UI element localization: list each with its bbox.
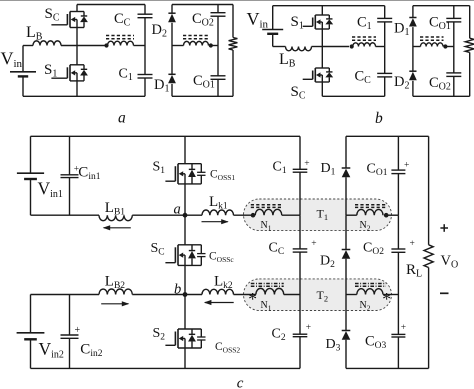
arrow under LB2 (right) xyxy=(101,301,129,306)
arrow under LB1 (left) xyxy=(103,225,131,230)
label D2 (fig c) xyxy=(320,254,335,271)
core lines primary (fig b) xyxy=(352,37,376,40)
label N1 (T2) xyxy=(261,300,272,313)
plus mark CO3 xyxy=(401,323,406,333)
label LB (fig a) xyxy=(26,24,43,43)
label T2 xyxy=(317,288,329,304)
capacitor CC (fig b) xyxy=(377,73,392,77)
resistor load (fig b) xyxy=(465,38,474,52)
wire RL to bottom xyxy=(428,268,430,369)
battery Vin1 xyxy=(17,136,44,215)
wire T1 node to D2 xyxy=(345,215,347,249)
node dot T1 N2 xyxy=(384,213,389,218)
wire D1 to bottom (fig a) xyxy=(171,84,173,96)
svg-text:b: b xyxy=(375,110,383,127)
svg-text:+: + xyxy=(401,323,406,333)
wire top to CO1 (fig b) xyxy=(453,6,455,19)
wire CC to T2 tap xyxy=(299,252,301,294)
label C2 (fig c) xyxy=(272,326,286,343)
capacitor CO2 (fig a) xyxy=(211,13,226,17)
label Lk1 xyxy=(209,194,228,212)
winding N2 of T2 xyxy=(346,289,383,295)
diode D1 (fig c) xyxy=(342,168,351,177)
wire C1 to mid (fig b) xyxy=(384,22,386,74)
wire D3 to bottom xyxy=(345,340,347,369)
label SC (fig c) xyxy=(151,241,165,258)
figure a: top border artifact line xyxy=(0,0,474,2)
wire bottom (fig a left) xyxy=(23,95,145,97)
wire battery to LB (fig b) xyxy=(273,46,286,48)
core lines secondary (fig a) xyxy=(183,36,209,39)
inductor Lk2 xyxy=(202,289,234,294)
wire node a to Lk1 xyxy=(185,214,202,216)
label CO3 (fig c) xyxy=(365,334,387,352)
node a xyxy=(183,213,188,218)
core lines secondary (fig b) xyxy=(420,37,444,40)
label S1 (fig b) xyxy=(291,14,304,32)
wire S2 to bottom (fig c) xyxy=(184,348,186,368)
label S1 (fig c) xyxy=(153,160,166,177)
wire winding to C rail (fig a) xyxy=(134,45,146,47)
battery Vin (fig b) xyxy=(262,6,283,47)
capacitor C1 (fig b) xyxy=(377,18,392,22)
label CO1 (fig a) xyxy=(193,73,215,91)
wire bottom (fig b left) xyxy=(322,95,384,97)
wire winding to CO rail (fig b) xyxy=(445,46,453,48)
wire D2 to T2 node xyxy=(345,259,347,295)
wire D1 to mid (fig b) xyxy=(412,27,414,46)
plus mark C1 xyxy=(304,159,309,169)
svg-text:a: a xyxy=(118,109,126,126)
diode D3 (fig c) xyxy=(342,331,351,340)
winding N1 of T2 xyxy=(256,288,284,294)
resistor load (fig a) xyxy=(229,38,238,51)
capacitor C2 (fig c) xyxy=(293,334,308,337)
capacitor C1 (fig a) xyxy=(138,75,153,79)
label c (fig c) xyxy=(237,376,244,389)
transformer T1 outline xyxy=(244,199,392,231)
wire top to CO1 (fig c) xyxy=(397,136,399,170)
arrow under Lk2 (left) xyxy=(204,300,234,305)
label b (node) xyxy=(174,281,181,297)
label a xyxy=(174,201,181,217)
wire Vin+ to LB (fig a) xyxy=(23,45,33,47)
label Cin1 with plus xyxy=(74,164,101,182)
capacitor Cin1 xyxy=(61,136,79,215)
wire LB2 to node b xyxy=(132,294,185,296)
transistor SC (fig a) xyxy=(51,12,88,28)
diode D1 (fig a) xyxy=(168,74,176,83)
label D2 (fig a) xyxy=(152,22,167,40)
wire CO1 to T1 node xyxy=(397,174,399,216)
label CC (fig a) xyxy=(114,11,131,29)
node dot secondary winding (fig b) xyxy=(443,44,447,48)
wire T2 N2 to CO rail xyxy=(383,294,398,296)
capacitor label COSS1 xyxy=(210,169,235,183)
wire S1 to node a xyxy=(184,184,186,215)
polarity mark T2 N1 xyxy=(248,289,257,309)
label LB2 xyxy=(105,274,126,292)
wire top to load (fig a) xyxy=(232,5,234,38)
wire N1 to C rail (fig c) xyxy=(282,214,300,216)
label CC (fig b) xyxy=(355,69,372,87)
minus mark output xyxy=(440,292,449,294)
wire SC source to node (fig a) xyxy=(76,28,78,46)
label SC (fig b) xyxy=(291,84,306,102)
wire CC to bottom (fig b) xyxy=(384,77,386,96)
wire top (fig b right) xyxy=(413,5,470,7)
wire CO2 to bottom (fig b) xyxy=(453,76,455,96)
label Vin1 xyxy=(38,179,63,201)
wire S1 source to bottom (fig a) xyxy=(76,81,78,96)
label C1 (fig c) xyxy=(273,159,287,176)
polarity mark T2 N2 xyxy=(382,289,391,309)
coupled inductor secondary (fig a) xyxy=(172,41,209,45)
wire top to D1 (fig c) xyxy=(345,136,347,168)
wire top (fig c right) xyxy=(346,135,429,137)
label VO xyxy=(441,253,459,271)
capacitor CO1 (fig a) xyxy=(211,76,226,80)
wire CO2 to mid (fig a) xyxy=(217,16,219,76)
svg-text:+: + xyxy=(75,325,81,336)
wire top to S1 (fig c) xyxy=(184,136,186,163)
wire bottom (fig c left) xyxy=(31,367,301,369)
svg-text:+: + xyxy=(311,239,316,249)
label D1 (fig b) xyxy=(394,21,409,39)
label D1 (fig c) xyxy=(321,161,336,178)
inductor LB (fig b) xyxy=(286,47,312,51)
wire node to SC (fig b) xyxy=(321,47,323,69)
battery Vin2 xyxy=(17,295,45,369)
wire load to bottom (fig a) xyxy=(232,50,234,96)
wire LB to switch node (fig b) xyxy=(312,46,323,48)
wire top to D2 (fig a) xyxy=(171,5,173,14)
wire top to CO2 (fig a) xyxy=(217,5,219,13)
node dot T1 N1 xyxy=(251,213,256,218)
core lines T2 N1 xyxy=(251,284,284,287)
svg-text:+: + xyxy=(74,165,79,175)
coupled inductor primary (fig a) xyxy=(108,41,134,45)
label D3 (fig c) xyxy=(326,337,341,354)
svg-text:+: + xyxy=(306,323,311,333)
label D2 (fig b) xyxy=(394,74,409,92)
label a (fig a) xyxy=(118,109,126,126)
label CO2 (fig a) xyxy=(192,11,214,29)
wire CO3 to bottom xyxy=(397,337,399,368)
wire LB1 to node a xyxy=(132,214,185,216)
core lines T1 N1 xyxy=(251,205,282,208)
wire top to CC (fig a) xyxy=(144,5,146,15)
core lines T2 N2 xyxy=(355,284,386,287)
wire top to load (fig b) xyxy=(469,6,471,39)
wire node b to S2 xyxy=(184,295,186,330)
label T1 xyxy=(317,207,329,223)
wire mid to D2 (fig b) xyxy=(412,47,414,72)
wire bottom (fig c right) xyxy=(346,367,429,369)
wire Lk2 to T2 N1 xyxy=(234,294,256,296)
svg-text:*: * xyxy=(382,289,391,309)
resistor RL xyxy=(424,245,433,268)
node dot primary winding (fig a) xyxy=(104,43,108,47)
wire node b to Lk2 xyxy=(185,294,202,296)
svg-text:+: + xyxy=(404,161,409,171)
capacitor CO1 (fig c) xyxy=(391,170,405,174)
wire C2 to bottom xyxy=(299,337,301,369)
coupled inductor primary (fig b) xyxy=(353,43,376,47)
wire T2 N1 to C rail xyxy=(284,294,300,296)
inductor Lk1 xyxy=(202,210,234,215)
plus mark C2 xyxy=(306,323,311,333)
wire CO1 to bottom (fig a) xyxy=(217,79,219,96)
plus mark CC xyxy=(311,239,316,249)
node dot primary winding (fig b) xyxy=(350,44,354,48)
wire C1 to T1 tap xyxy=(299,172,301,215)
wire load to bottom (fig b) xyxy=(469,52,471,96)
label LB1 xyxy=(105,200,126,218)
capacitor Cin2 xyxy=(61,295,79,369)
label Cin2 xyxy=(75,325,103,359)
wire node to S1 drain (fig a) xyxy=(76,46,78,65)
wire top rail above SC (fig a) xyxy=(76,5,78,12)
core lines primary (fig a) xyxy=(106,36,134,39)
wire Lk1 to T1 N1 xyxy=(234,214,254,216)
wire CO1 to mid (fig b) xyxy=(453,22,455,73)
inductor LB2 xyxy=(99,289,132,294)
node dot secondary winding (fig a) xyxy=(209,43,213,47)
wire winding to C rail (fig b) xyxy=(376,46,385,48)
svg-text:c: c xyxy=(237,376,244,389)
diode D1 (fig b) xyxy=(409,18,417,27)
capacitor label COSSc xyxy=(209,251,234,265)
wire N2 to CO rail (fig c) xyxy=(386,214,398,216)
wire T2 node to CO3 xyxy=(397,295,399,335)
transformer T2 outline xyxy=(244,279,392,311)
battery Vin (fig a) xyxy=(10,46,36,97)
capacitor label COSS2 xyxy=(215,341,240,355)
wire mid to D1 (fig a) xyxy=(171,46,173,75)
label Vin (fig a) xyxy=(1,49,23,71)
label D1 (fig a) xyxy=(154,77,169,95)
wire C1 to bottom (fig a) xyxy=(144,78,146,96)
wire D2 to bottom (fig b) xyxy=(412,81,414,97)
capacitor CC (fig a) xyxy=(138,14,153,18)
label N2 (T2) xyxy=(360,300,371,313)
wire node to winding (fig b) xyxy=(322,46,349,48)
label LB (fig b) xyxy=(279,51,296,70)
inductor LB1 xyxy=(99,215,132,220)
wire LB1 left (fig c) xyxy=(31,214,100,216)
label SC (fig a) xyxy=(45,6,60,24)
plus mark CO1 xyxy=(404,161,409,171)
diode D2 (fig a) xyxy=(168,13,176,22)
label Vin (fig b) xyxy=(247,9,269,31)
label CO2 (fig b) xyxy=(429,75,451,93)
transistor S1 (fig a) xyxy=(51,65,88,81)
wire T2 tap to C2 xyxy=(299,295,301,335)
wire top to RL (fig c) xyxy=(428,136,430,245)
arrow under Lk1 (right) xyxy=(202,219,229,224)
label N1 (T1) xyxy=(261,220,272,233)
label Vin2 xyxy=(39,339,64,361)
svg-text:a: a xyxy=(174,201,181,217)
inductor LB (fig a) xyxy=(33,41,61,46)
winding N1 of T1 xyxy=(255,209,282,215)
wire LB2 left (fig c) xyxy=(31,294,100,296)
capacitor CO2 (fig c) xyxy=(391,249,405,252)
wire top (fig a left) xyxy=(77,4,145,6)
wire T2 node to D3 xyxy=(345,295,347,331)
wire LB to switch node (fig a) xyxy=(61,45,107,47)
wire top (fig c left) xyxy=(31,135,301,137)
capacitor C1 (fig c) xyxy=(293,169,308,172)
plus mark CO2 xyxy=(410,239,415,249)
capacitor CC (fig c) xyxy=(293,249,308,252)
node b xyxy=(183,292,188,297)
label b (fig b) xyxy=(375,110,383,127)
label S1 (fig a) xyxy=(44,62,57,80)
svg-text:+: + xyxy=(410,239,415,249)
wire top to C1 (fig c) xyxy=(299,136,301,169)
wire S1 to node (fig b) xyxy=(321,29,323,47)
wire top to S1 (fig b) xyxy=(321,6,323,15)
label CO1 (fig c) xyxy=(367,162,388,179)
svg-text:+: + xyxy=(304,159,309,169)
wire bottom (fig b right) xyxy=(413,95,470,97)
transistor S2 (fig c) xyxy=(165,329,205,348)
label N2 (T1) xyxy=(360,220,371,233)
wire SC to node b xyxy=(184,265,186,294)
label RL xyxy=(406,262,422,280)
wire bottom (fig a right) xyxy=(172,95,233,97)
wire top to C1 (fig b) xyxy=(384,6,386,19)
core lines T1 N2 xyxy=(355,205,386,208)
wire top (fig b left) xyxy=(273,5,385,7)
wire top to D1 (fig b) xyxy=(412,6,414,18)
label CC (fig c) xyxy=(269,241,285,258)
wire CC to winding node (fig a) xyxy=(144,18,146,75)
wire node a to SC (fig c) xyxy=(184,215,186,245)
wire winding to CO rail (fig a) xyxy=(211,45,218,47)
wire SC to bottom (fig b) xyxy=(321,82,323,96)
wire D2 to mid (fig a) xyxy=(171,23,173,46)
transistor S1 (fig b) xyxy=(303,15,334,29)
capacitor CO2 (fig b) xyxy=(446,73,461,77)
diode D2 (fig b) xyxy=(409,71,417,80)
label C1 (fig b) xyxy=(357,15,372,33)
coupled inductor secondary (fig b) xyxy=(413,43,443,47)
capacitor CO3 (fig c) xyxy=(391,334,405,337)
wire top (fig a right) xyxy=(172,4,233,6)
label Lk2 xyxy=(214,274,233,292)
diode D2 (fig c) xyxy=(342,250,351,259)
transistor S1 (fig c) xyxy=(165,164,205,184)
wire D1 to T1 node xyxy=(345,177,347,215)
winding N2 of T1 xyxy=(346,209,383,215)
capacitor CO1 (fig b) xyxy=(446,18,461,22)
wire T1 tap to CC xyxy=(299,215,301,249)
transistor SC (fig b) xyxy=(303,68,334,82)
label S2 (fig c) xyxy=(153,326,166,343)
label CO1 (fig b) xyxy=(429,15,451,33)
plus mark output xyxy=(440,224,448,232)
wire CO2 to T2 node xyxy=(397,252,399,294)
wire T1 node to CO2 xyxy=(397,215,399,249)
transistor SC (fig c) xyxy=(165,245,205,266)
label C1 (fig a) xyxy=(119,67,133,84)
label CO2 (fig c) xyxy=(363,241,384,258)
